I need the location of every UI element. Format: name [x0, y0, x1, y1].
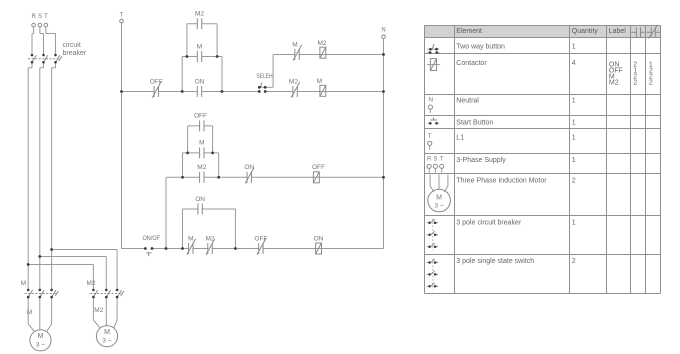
svg-text:N: N [381, 28, 385, 34]
svg-text:M2: M2 [195, 11, 204, 18]
node rung3 x rung2-drop [165, 247, 168, 250]
node rung1 branch junctions [181, 55, 224, 93]
svg-text:3-Phase Supply: 3-Phase Supply [456, 157, 506, 164]
contact M2 NO rung1 branch [195, 11, 204, 30]
svg-text:M: M [27, 309, 32, 316]
wire parallel branch M2 rung1 [187, 24, 217, 57]
icon three phase motor [428, 175, 451, 212]
svg-text:OFF: OFF [194, 113, 207, 120]
svg-text:M: M [199, 140, 204, 147]
motor 2 three phase induction motor [96, 326, 117, 347]
svg-text:M2: M2 [86, 280, 95, 287]
svg-text:M: M [104, 329, 110, 336]
wire rung 2 [166, 176, 384, 178]
wire parallel branch M rung2 [183, 153, 219, 177]
wire contacts M to motor 1 [28, 298, 51, 331]
svg-text:M: M [38, 333, 44, 340]
contact M NC rung3 [187, 235, 196, 254]
svg-text:ON: ON [314, 235, 324, 242]
svg-text:4: 4 [572, 60, 576, 67]
svg-text:SELEH: SELEH [256, 73, 272, 80]
table row three phase induction motor [456, 178, 576, 185]
svg-text:3 pole circuit breaker: 3 pole circuit breaker [456, 220, 522, 227]
table header background [424, 25, 661, 38]
contact M NC rung1 upper branch [292, 42, 302, 61]
svg-text:R: R [427, 156, 432, 162]
wire phase 1 breaker to motor branch [28, 64, 32, 289]
wire T rail [121, 23, 123, 249]
wire branch phase 3 to motor 2 [52, 250, 118, 289]
svg-text:3 ~: 3 ~ [36, 341, 45, 348]
svg-text:T: T [120, 13, 124, 19]
svg-text:2: 2 [649, 79, 653, 86]
table row two way button [456, 44, 576, 51]
wire branch phase 1 to motor 2 [28, 265, 93, 289]
wire branch phase 2 to motor 2 [40, 257, 107, 289]
node T rail x rung1 [120, 90, 123, 93]
contact ON NO rung1 [195, 78, 205, 97]
svg-text:T: T [428, 134, 432, 140]
svg-text:1: 1 [572, 120, 576, 127]
svg-text:1: 1 [572, 97, 576, 104]
table header text [456, 28, 626, 35]
node N rail x rung1 [382, 90, 385, 93]
wire parallel branch OFF rung2 [188, 126, 213, 153]
svg-text:S: S [38, 14, 42, 20]
contactor M2 3-pole contacts (power) [86, 280, 123, 314]
svg-text:M2: M2 [609, 79, 619, 86]
contactor M 3-pole contacts (power) [21, 280, 59, 316]
wire parallel branch ON rung3 [183, 209, 236, 249]
switch ON/OF rung3 [142, 235, 160, 256]
svg-text:1: 1 [572, 135, 576, 142]
wire phase 2 breaker to motor branch [40, 64, 44, 289]
contact OFF NO rung2 branch [194, 113, 207, 132]
wire T phase from supply to breaker [46, 27, 56, 54]
svg-text:ON/OF: ON/OF [142, 235, 160, 242]
node rung2 branch junctions [181, 152, 220, 179]
wire R phase from supply to breaker [32, 27, 34, 54]
svg-text:M: M [317, 78, 322, 85]
svg-text:Start Button: Start Button [456, 120, 493, 127]
table row 3 pole single state switch [456, 258, 576, 265]
node N rail x upper branch [382, 53, 385, 56]
svg-text:S: S [433, 156, 437, 162]
svg-text:M: M [188, 235, 193, 242]
svg-text:M2: M2 [94, 307, 103, 314]
coil M contactor [317, 78, 326, 96]
svg-text:3 ~: 3 ~ [102, 337, 111, 344]
wire phase 3 breaker to motor branch [52, 64, 56, 289]
contact ON NC rung2 [244, 164, 254, 183]
icon two way button [427, 44, 439, 54]
wire rung 3 [122, 248, 384, 250]
svg-text:2: 2 [572, 258, 576, 265]
node N rail x rung2 [382, 176, 385, 179]
wire parallel branch M rung1 [182, 57, 222, 92]
svg-text:M2: M2 [197, 164, 206, 171]
contact ON NO rung3 branch [195, 196, 205, 215]
svg-text:Label: Label [609, 28, 627, 35]
table grid [425, 26, 661, 294]
svg-text:Quantity: Quantity [572, 28, 599, 35]
table row L1 [456, 135, 576, 142]
icon contactor coil [427, 59, 440, 71]
3-phase supply terminals R S T [32, 14, 49, 27]
selector switch SELEH [256, 73, 273, 93]
svg-text:OFF: OFF [312, 164, 325, 171]
svg-text:1: 1 [572, 157, 576, 164]
svg-text:ON: ON [195, 78, 205, 85]
wire S phase from supply to breaker [40, 27, 44, 54]
wire N rail [383, 39, 385, 249]
svg-text:Two way button: Two way button [456, 44, 505, 51]
svg-text:Three Phase Induction Motor: Three Phase Induction Motor [456, 178, 547, 185]
wire rung2 left drop to rung3 [165, 177, 167, 248]
svg-text:M2: M2 [317, 40, 326, 47]
wire rung 1 [122, 91, 384, 93]
svg-text:M2: M2 [289, 78, 298, 85]
svg-text:M: M [292, 42, 297, 49]
contact M NO rung2 branch [199, 140, 204, 159]
svg-text:T: T [44, 14, 48, 20]
svg-text:Neutral: Neutral [456, 97, 479, 104]
table row neutral [456, 97, 576, 104]
svg-text:3 pole single state switch: 3 pole single state switch [456, 258, 534, 265]
node rung3 branch junctions [181, 247, 237, 250]
node phase branch junctions [27, 248, 53, 266]
contact M NO rung1 branch [197, 43, 202, 62]
svg-text:1: 1 [572, 44, 576, 51]
table header icon NC contact [647, 26, 660, 39]
svg-text:L1: L1 [456, 135, 464, 142]
svg-text:breaker: breaker [63, 50, 87, 57]
svg-text:Element: Element [456, 28, 482, 35]
terminal N (neutral) [381, 28, 385, 39]
coil OFF rung2 [312, 164, 325, 183]
svg-text:3 ~: 3 ~ [434, 203, 443, 210]
icon L1 terminal [428, 134, 432, 150]
svg-text:2: 2 [633, 79, 637, 86]
motor 1 three phase induction motor [30, 330, 51, 351]
table row 3 pole circuit breaker [456, 220, 576, 227]
svg-text:2: 2 [572, 178, 576, 185]
contact M2 NC rung3 [205, 235, 214, 254]
coil ON rung3 [314, 235, 324, 254]
icon 3 pole single state switch [427, 259, 438, 290]
svg-text:R: R [32, 14, 37, 20]
label circuit breaker [63, 42, 87, 57]
3 pole circuit breaker QF [28, 54, 62, 64]
table row start button [456, 120, 576, 127]
svg-text:N: N [429, 98, 433, 104]
wire SELEH to upper branch [273, 55, 383, 88]
contact M2 NO rung2 [197, 164, 206, 183]
contact OFF NC rung1 [150, 78, 163, 97]
svg-text:1: 1 [572, 220, 576, 227]
contact OFF NC rung3 [254, 235, 267, 254]
icon 3-phase supply [427, 156, 444, 172]
svg-text:circuit: circuit [63, 42, 81, 49]
svg-text:M: M [197, 43, 202, 50]
svg-text:M: M [21, 280, 26, 287]
coil M2 contactor [317, 40, 326, 58]
svg-text:Contactor: Contactor [456, 60, 487, 67]
contact M2 NC rung1 [289, 78, 300, 97]
svg-text:M: M [436, 195, 442, 202]
wire contacts M2 to motor 2 [93, 298, 117, 328]
icon neutral terminal [428, 98, 433, 114]
icon 3 pole circuit breaker [427, 219, 438, 250]
table header icon NO contact [631, 27, 644, 37]
svg-text:T: T [440, 156, 444, 162]
table row contactor [456, 60, 653, 87]
icon start button [428, 118, 439, 125]
svg-text:ON: ON [195, 196, 205, 203]
terminal T (L1) [120, 13, 124, 23]
table row 3-phase supply [456, 157, 576, 164]
